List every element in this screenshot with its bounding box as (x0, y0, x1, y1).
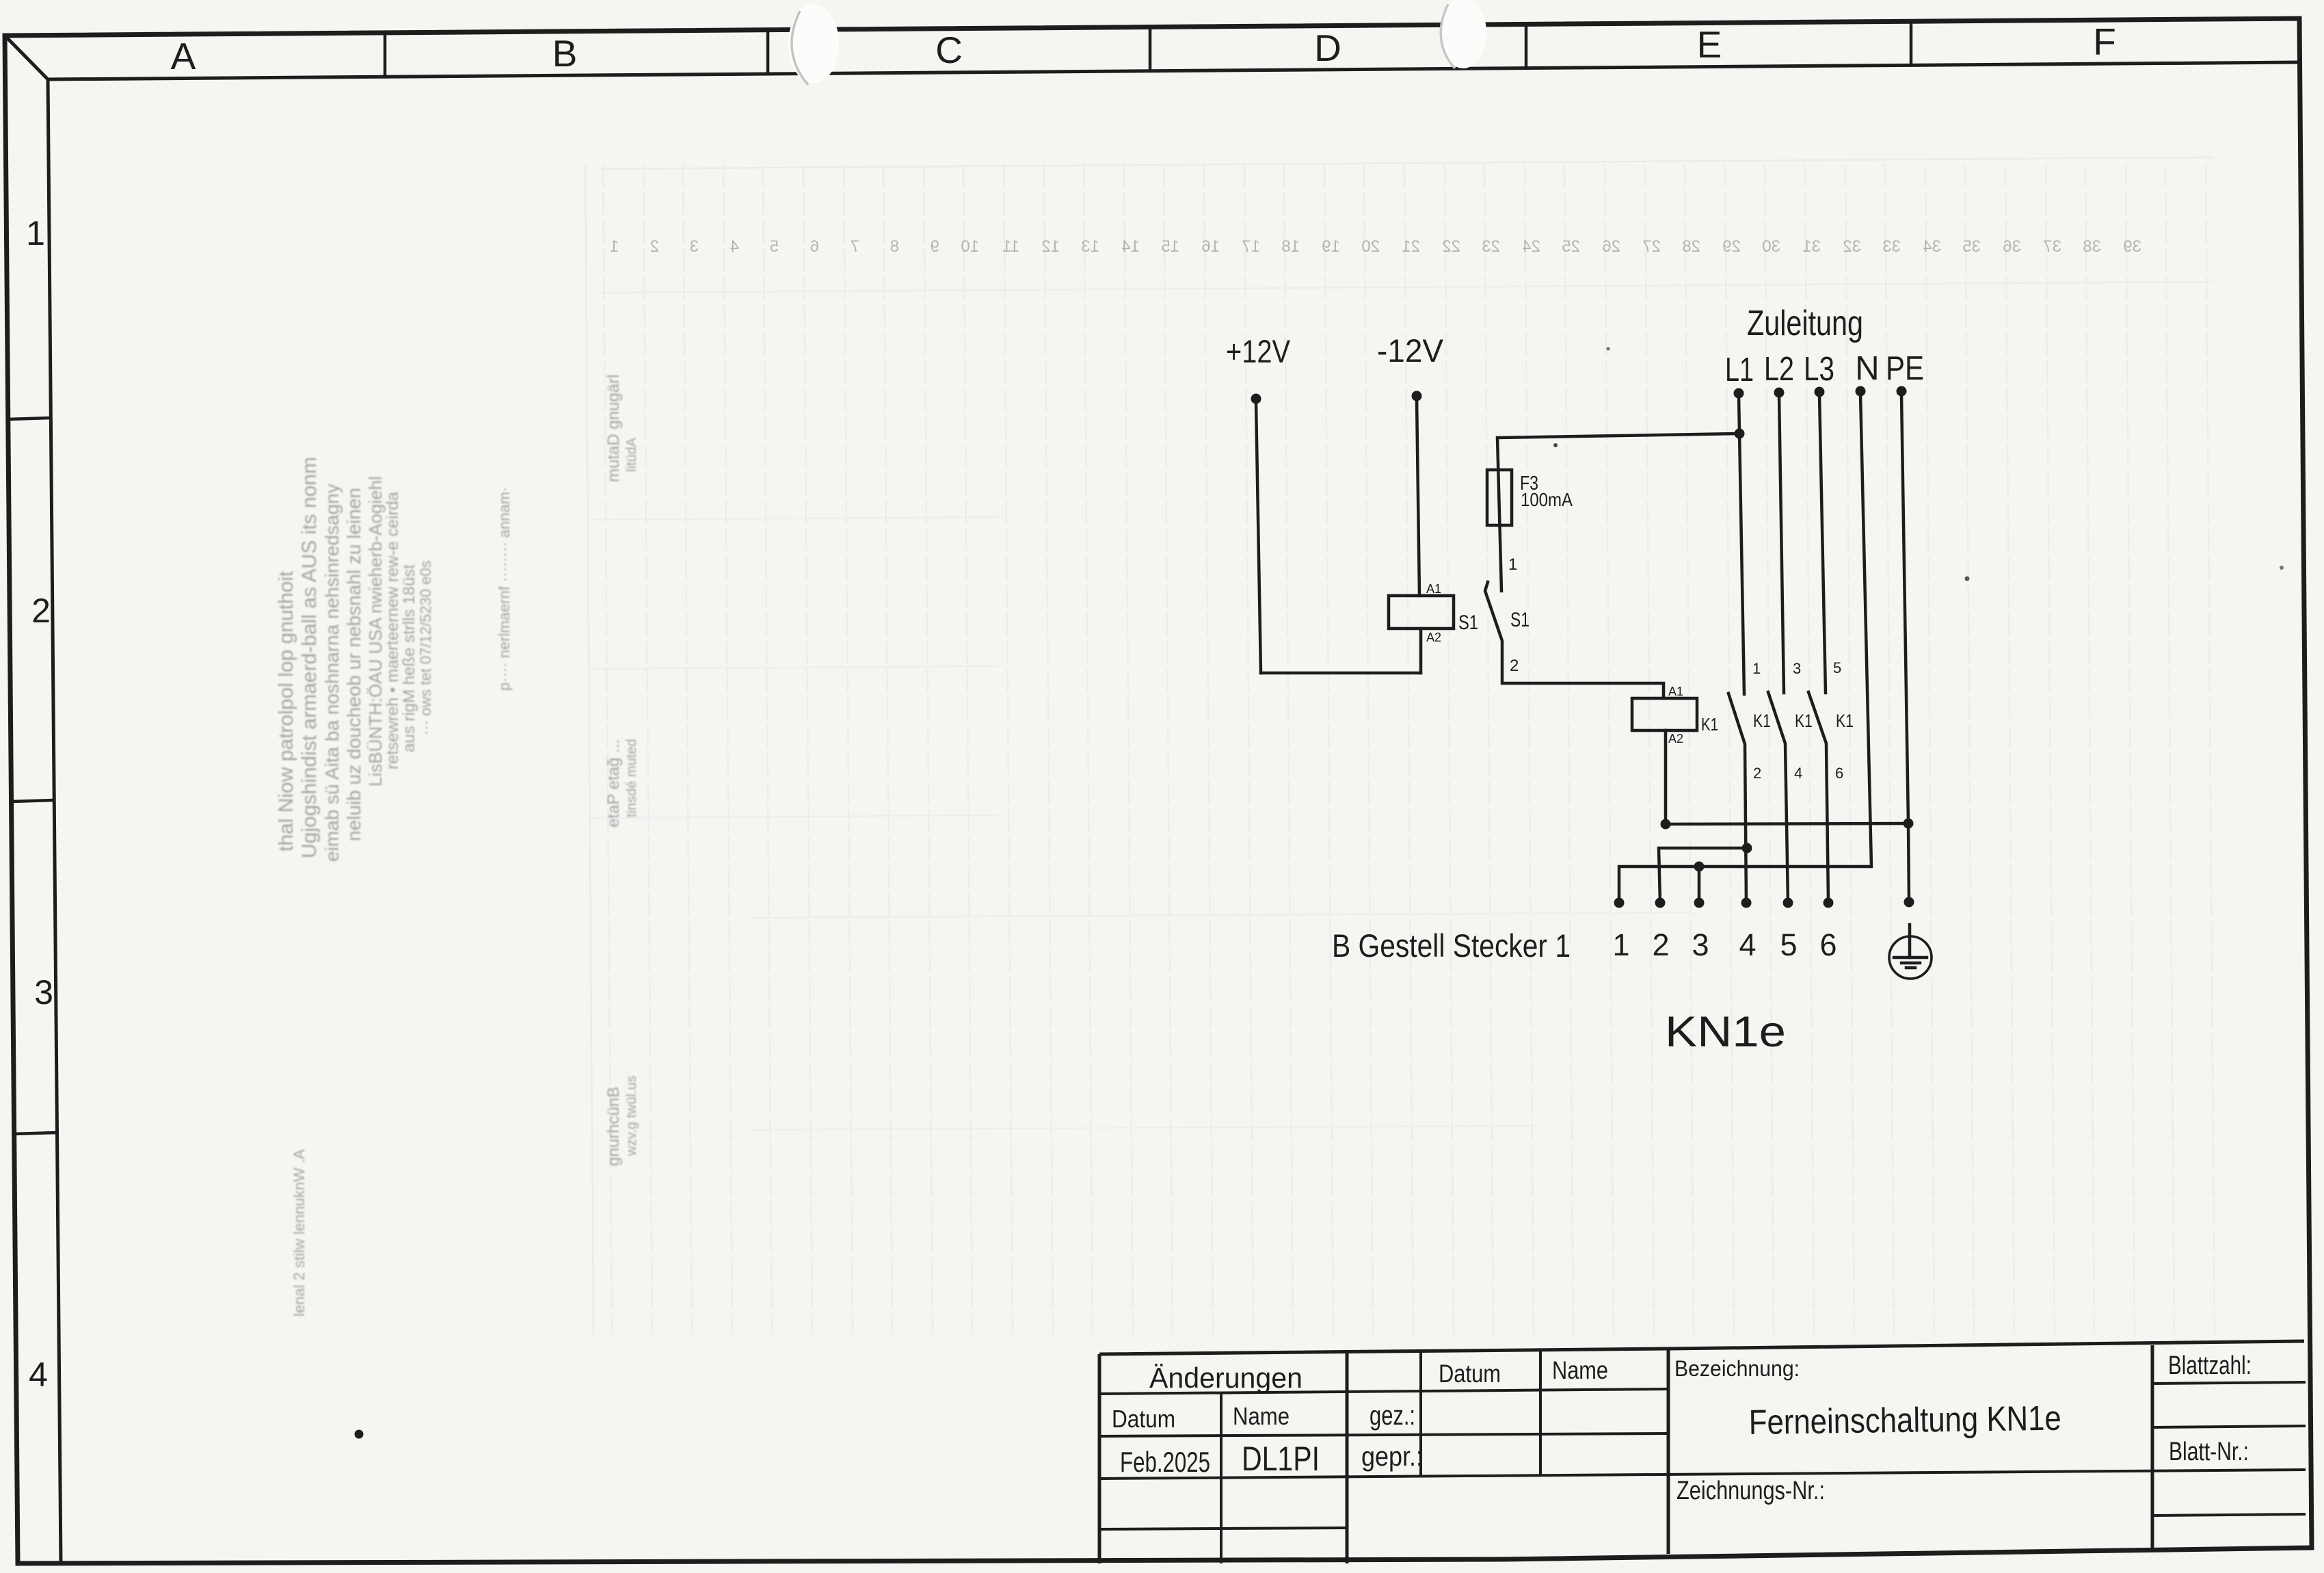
svg-text:LisBÜNTH:ÖAU USA nwieherb-Aogi: LisBÜNTH:ÖAU USA nwieherb-Aogiehl (365, 476, 386, 786)
svg-text:17: 17 (1242, 237, 1260, 256)
junction dot bridge on pole1 wire (1742, 843, 1752, 854)
svg-text:25: 25 (1562, 237, 1580, 256)
svg-text:31: 31 (1802, 237, 1821, 256)
svg-text:p···· nerlmaernf ········ anna: p···· nerlmaernf ········ annam· (496, 487, 513, 691)
svg-text:A2: A2 (1426, 631, 1441, 644)
svg-text:etaP etağ ...: etaP etağ ... (604, 739, 623, 828)
svg-text:28: 28 (1682, 237, 1700, 256)
svg-text:1: 1 (1508, 555, 1517, 574)
svg-text:gepr.:: gepr.: (1361, 1442, 1423, 1472)
svg-text:29: 29 (1722, 237, 1741, 256)
wire +12V vertical (1256, 402, 1261, 673)
wire pin2 riser and bridge to pole1 wire (1659, 848, 1747, 903)
switch S1 blade and pole wire to K1 A1 (1485, 582, 1664, 698)
svg-text:10: 10 (961, 237, 979, 256)
wire L1 junction to fuse F3 (1497, 434, 1739, 591)
svg-text:7: 7 (851, 237, 859, 256)
svg-text:15: 15 (1161, 237, 1179, 256)
svg-text:4: 4 (1794, 765, 1802, 782)
svg-text:20: 20 (1361, 237, 1380, 256)
svg-text:2: 2 (1510, 657, 1519, 675)
svg-text:L3: L3 (1804, 351, 1834, 388)
svg-text:18: 18 (1281, 237, 1300, 256)
svg-text:neluib uz doucheob ur nebsnahl: neluib uz doucheob ur nebsnahl zu leinen (343, 488, 364, 841)
svg-text:1: 1 (610, 237, 619, 256)
svg-text:Blattzahl:: Blattzahl: (2168, 1351, 2252, 1380)
wire L2 down to contact (1779, 395, 1784, 693)
svg-text:32: 32 (1843, 237, 1861, 256)
svg-text:39: 39 (2123, 237, 2141, 256)
wire L1 down to contact (1739, 395, 1744, 694)
svg-text:eimab sü Aita ba noshnarna neh: eimab sü Aita ba noshnarna nehsinredsagn… (321, 484, 343, 862)
svg-text:3: 3 (1692, 927, 1709, 962)
svg-text:2: 2 (650, 237, 659, 256)
connector pin dot 3 (1694, 898, 1705, 908)
svg-text:mutaD gnugärl: mutaD gnugärl (604, 375, 623, 482)
svg-text:tinsdé muted: tinsdé muted (624, 739, 639, 817)
svg-text:Bezeichnung:: Bezeichnung: (1674, 1356, 1800, 1381)
svg-text:4: 4 (1739, 927, 1756, 962)
terminal dot L2 (1774, 388, 1785, 398)
junction dot on L1 (1735, 429, 1745, 439)
svg-text:21: 21 (1402, 237, 1420, 256)
svg-text:3: 3 (34, 973, 53, 1012)
svg-text:gez.:: gez.: (1370, 1401, 1415, 1431)
svg-text:2: 2 (31, 592, 51, 630)
svg-text:12: 12 (1041, 237, 1060, 256)
svg-text:-12V: -12V (1377, 332, 1444, 369)
svg-text:Name: Name (1233, 1402, 1290, 1430)
svg-text:··· ows tet 07/12/5230 e0s: ··· ows tet 07/12/5230 e0s (417, 560, 434, 735)
svg-text:13: 13 (1081, 237, 1099, 256)
connector pin dot 4 (1741, 898, 1752, 908)
svg-text:wzv.g twül.us: wzv.g twül.us (624, 1076, 639, 1156)
title block grid (1099, 1341, 2306, 1563)
svg-text:23: 23 (1482, 237, 1500, 256)
ink dot mark (355, 1430, 364, 1439)
svg-text:E: E (1697, 23, 1722, 66)
svg-text:35: 35 (1962, 237, 1981, 256)
svg-text:11: 11 (1002, 237, 1019, 256)
wire K1 A2 to PE line (1666, 823, 1908, 824)
connector pin dot PE (1904, 897, 1914, 908)
svg-text:N: N (1855, 350, 1879, 387)
terminal dot L1 (1734, 388, 1744, 399)
svg-text:34: 34 (1923, 237, 1941, 256)
svg-text:S1: S1 (1458, 611, 1478, 634)
svg-text:24: 24 (1522, 237, 1540, 256)
svg-text:L2: L2 (1764, 351, 1794, 388)
wire PE down (1901, 395, 1909, 902)
svg-text:D: D (1314, 27, 1341, 69)
fuse F3 (1487, 470, 1512, 525)
svg-text:thal Niow patrolpol lop gnutho: thal Niow patrolpol lop gnuthoit (275, 570, 297, 851)
svg-text:DL1PI: DL1PI (1242, 1440, 1320, 1478)
svg-text:26: 26 (1602, 237, 1620, 256)
svg-text:37: 37 (2043, 237, 2061, 256)
svg-text:K1: K1 (1753, 711, 1771, 731)
svg-text:3: 3 (690, 237, 699, 256)
terminal dot N (1856, 386, 1866, 397)
svg-text:4: 4 (730, 237, 739, 256)
connector pin dot 2 (1655, 898, 1666, 908)
svg-text:+12V: +12V (1226, 333, 1291, 369)
junction dot on PE line (1904, 819, 1914, 829)
svg-text:100mA: 100mA (1521, 489, 1573, 510)
svg-text:3: 3 (1793, 660, 1801, 677)
svg-text:Datum: Datum (1112, 1405, 1175, 1433)
svg-text:Name: Name (1552, 1356, 1608, 1384)
svg-text:litüdA: litüdA (624, 437, 639, 472)
connector pin dot 5 (1783, 898, 1793, 908)
svg-text:6: 6 (1819, 927, 1837, 962)
svg-text:Zuleitung: Zuleitung (1747, 304, 1863, 343)
connector pin dot 1 (1614, 898, 1625, 908)
terminal dot PE (1897, 386, 1907, 397)
svg-text:22: 22 (1442, 237, 1460, 256)
svg-text:2: 2 (1753, 765, 1761, 782)
svg-text:1: 1 (26, 214, 45, 252)
svg-text:33: 33 (1882, 237, 1901, 256)
svg-text:K1: K1 (1795, 711, 1813, 731)
svg-text:1: 1 (1752, 660, 1761, 677)
svg-text:A1: A1 (1668, 685, 1683, 698)
svg-text:30: 30 (1762, 237, 1780, 256)
svg-text:K1: K1 (1836, 711, 1854, 731)
svg-text:38: 38 (2083, 237, 2101, 256)
terminal dot -12V (1412, 391, 1422, 401)
svg-text:14: 14 (1121, 237, 1140, 256)
svg-text:Ugjogshindist armaerd-ball as: Ugjogshindist armaerd-ball as AUS its no… (298, 457, 321, 858)
wire N down and across to pin 1 (1619, 394, 1871, 903)
relay coil S1 (1389, 596, 1454, 629)
wire pin3 riser (1698, 867, 1701, 903)
contact K1 pole1 blade, wire to pin 4 (1728, 693, 1746, 903)
svg-text:lenal 2 stilw lennuknW .A: lenal 2 stilw lennuknW .A (291, 1149, 308, 1317)
terminal dot +12V (1251, 394, 1261, 404)
svg-text:F: F (2093, 21, 2116, 63)
wire -12V to S1 coil A1 (1417, 398, 1419, 596)
ground (protective earth) symbol (1889, 925, 1932, 979)
wire L3 down to contact (1819, 395, 1826, 693)
svg-text:2: 2 (1652, 927, 1669, 962)
svg-text:A2: A2 (1668, 732, 1683, 745)
svg-text:B Gestell Stecker 1: B Gestell Stecker 1 (1332, 927, 1571, 964)
svg-text:27: 27 (1642, 237, 1661, 256)
wire S1 coil A2 stub (1419, 629, 1423, 673)
svg-text:Änderungen: Änderungen (1149, 1362, 1303, 1394)
svg-text:6: 6 (810, 237, 819, 256)
svg-text:Ferneinschaltung KN1e: Ferneinschaltung KN1e (1748, 1399, 2061, 1442)
svg-text:19: 19 (1322, 237, 1340, 256)
svg-text:Datum: Datum (1439, 1360, 1501, 1388)
svg-text:KN1e: KN1e (1665, 1008, 1786, 1056)
contact K1 pole2 blade, wire to pin 5 (1768, 692, 1788, 903)
connector pin dot 6 (1824, 898, 1834, 908)
svg-text:Feb.2025: Feb.2025 (1120, 1446, 1210, 1478)
svg-text:aus rigM heße strlls 18üst: aus rigM heße strlls 18üst (400, 564, 418, 752)
svg-text:6: 6 (1835, 765, 1843, 782)
svg-text:5: 5 (1780, 927, 1797, 962)
contactor coil K1 (1632, 698, 1697, 730)
svg-text:5: 5 (1833, 659, 1841, 676)
svg-text:Blatt-Nr.:: Blatt-Nr.: (2169, 1438, 2249, 1466)
svg-text:PE: PE (1886, 350, 1924, 387)
svg-text:retsewreh • maerteernew rew-e: retsewreh • maerteernew rew-e ceirda (384, 491, 402, 769)
svg-text:1: 1 (1612, 927, 1629, 962)
svg-text:A: A (171, 35, 196, 77)
svg-text:gnurhcünB: gnurhcünB (604, 1087, 623, 1166)
svg-text:36: 36 (2003, 237, 2021, 256)
svg-text:L1: L1 (1725, 352, 1754, 388)
svg-text:A1: A1 (1426, 582, 1441, 596)
terminal dot L3 (1815, 387, 1825, 397)
svg-text:8: 8 (890, 237, 899, 256)
junction dot pin3 riser (1694, 862, 1705, 872)
svg-text:K1: K1 (1701, 714, 1718, 735)
svg-text:16: 16 (1201, 237, 1220, 256)
contact K1 pole3 blade, wire to pin 6 (1808, 692, 1828, 903)
wire K1 A2 down (1664, 730, 1668, 824)
svg-text:S1: S1 (1510, 609, 1530, 631)
svg-text:5: 5 (770, 237, 779, 256)
svg-text:4: 4 (29, 1356, 48, 1394)
svg-text:9: 9 (931, 237, 939, 256)
wire +12V to S1 coil A2 (bottom horizontal) (1261, 672, 1421, 675)
junction dot K1 A2 (1661, 819, 1671, 830)
svg-text:B: B (552, 32, 578, 75)
svg-text:C: C (935, 29, 963, 71)
svg-text:Zeichnungs-Nr.:: Zeichnungs-Nr.: (1677, 1477, 1825, 1505)
